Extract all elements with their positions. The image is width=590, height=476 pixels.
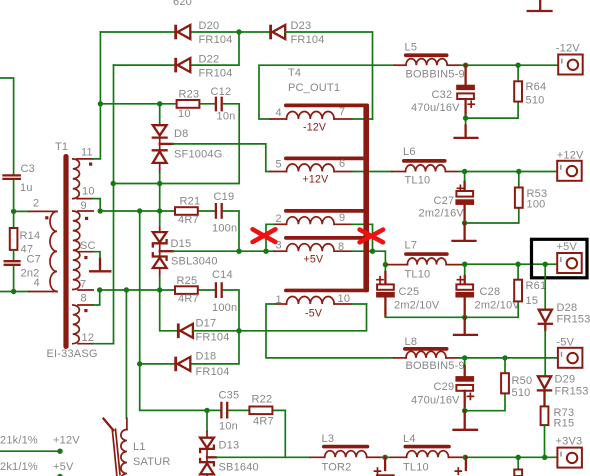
wire pin 10 jog down to pin 9 node	[93, 199, 100, 211]
wire pin7 row y=290	[100, 289, 175, 291]
capacitor C32 470u/16V	[411, 65, 475, 115]
node C19 riser on pin3 row	[236, 249, 241, 254]
node resistor stub	[516, 455, 521, 460]
connector -12V	[556, 43, 583, 75]
svg-text:L6: L6	[403, 146, 416, 158]
node C32 top	[463, 62, 468, 67]
wire to pin 3	[266, 250, 274, 252]
node C7/pin4	[11, 289, 16, 294]
resistor R73	[541, 406, 575, 457]
svg-text:C27: C27	[434, 195, 455, 207]
wire L6 to +12V connector	[459, 171, 566, 173]
svg-text:L1: L1	[133, 441, 146, 453]
svg-text:D28: D28	[557, 302, 578, 314]
svg-text:SATUR: SATUR	[133, 456, 170, 468]
node R50 top	[502, 355, 507, 360]
diode D23 FR104	[269, 20, 324, 46]
svg-text:+12V: +12V	[557, 150, 584, 162]
wire C25/C28/R61 bottom row	[385, 301, 518, 317]
svg-text:BOBBIN5-9: BOBBIN5-9	[406, 360, 465, 372]
node R61 top	[515, 262, 520, 267]
svg-text:4: 4	[34, 277, 40, 289]
svg-text:2m2/16V: 2m2/16V	[419, 208, 465, 220]
svg-text:9: 9	[339, 212, 345, 224]
ground below C27	[453, 223, 476, 241]
svg-text:C35: C35	[219, 390, 240, 402]
node R23/D8	[157, 101, 162, 106]
svg-text:C3: C3	[21, 163, 35, 175]
node D18 on riser	[137, 361, 142, 366]
svg-text:BOBBIN5-9: BOBBIN5-9	[406, 69, 465, 81]
node x=159.7 row211	[157, 208, 162, 213]
svg-text:SBL3040: SBL3040	[171, 256, 218, 268]
node x=139.7 row211	[137, 208, 142, 213]
black callout box +5V	[532, 239, 588, 277]
svg-text:+12V: +12V	[53, 435, 80, 447]
resistor R53	[515, 172, 547, 211]
T4 winding 3-8	[274, 236, 369, 266]
svg-text:L4: L4	[403, 433, 416, 445]
net stub +12V	[0, 450, 60, 452]
wire pin 10 to riser	[352, 303, 367, 305]
capacitor C14	[212, 269, 237, 314]
svg-text:470u/16V: 470u/16V	[411, 395, 460, 407]
node D20/D22/D23	[236, 29, 241, 34]
diode D29 FR153	[538, 374, 589, 407]
wire L8 to -5V connector	[459, 357, 566, 359]
svg-text:R50: R50	[512, 375, 533, 387]
node C35 row / D13	[204, 408, 209, 413]
node pin8/pin9	[370, 249, 375, 254]
svg-text:R25: R25	[177, 275, 198, 287]
svg-text:4R7: 4R7	[253, 416, 274, 428]
wire pin 11 up to D20 row	[93, 104, 100, 159]
svg-text:-5V: -5V	[305, 308, 323, 320]
svg-text:2k1/1%: 2k1/1%	[0, 461, 38, 473]
svg-text:12: 12	[82, 332, 95, 344]
svg-text:D17: D17	[196, 318, 217, 330]
resistor R64	[514, 65, 546, 106]
wire D20 row y=32	[100, 31, 239, 33]
capacitor C3	[4, 163, 35, 194]
node D22 riser / C12 return row	[111, 181, 116, 186]
svg-text:100n: 100n	[212, 302, 237, 314]
inductor L8 BOBBIN5-9	[394, 336, 465, 372]
svg-text:5: 5	[276, 159, 282, 171]
dual diode D15 SBL3040	[153, 228, 218, 331]
resistor R50	[501, 358, 532, 399]
wire C3 to node	[13, 181, 15, 212]
T1 winding 8-12	[73, 293, 94, 345]
svg-text:2: 2	[33, 198, 39, 210]
wire pin4 loop to L5 row	[259, 65, 394, 119]
svg-text:470u/16V: 470u/16V	[411, 102, 460, 114]
svg-text:4: 4	[276, 107, 282, 119]
dual diode D13 SB1640	[200, 410, 259, 476]
svg-text:10: 10	[178, 108, 191, 120]
wire riser x=139.7 down to D18/C35	[140, 211, 207, 410]
wire node to R14	[13, 211, 15, 228]
wire node to T1 pin 2	[14, 210, 29, 212]
svg-text:C12: C12	[211, 86, 232, 98]
node D8 riser on row 183.5	[157, 181, 162, 186]
node C3/R14/pin2	[11, 209, 16, 214]
node L7 left	[383, 262, 388, 267]
svg-text:R21: R21	[180, 196, 201, 208]
svg-text:-12V: -12V	[556, 43, 580, 55]
capacitor C35	[219, 390, 240, 433]
capacitor C28 2m2/10V	[455, 264, 520, 315]
svg-text:C28: C28	[480, 286, 501, 298]
T4 winding 5-6	[271, 157, 370, 186]
wire D22 riser x=113.5	[113, 65, 115, 344]
svg-text:FR104: FR104	[199, 68, 233, 80]
svg-text:T4: T4	[288, 67, 301, 79]
svg-text:510: 510	[526, 95, 545, 107]
node pin7/pin8	[97, 287, 102, 292]
wire D15 common to T4 pin 3 row	[160, 250, 173, 252]
svg-text:D20: D20	[199, 20, 220, 32]
svg-text:SF1004G: SF1004G	[174, 149, 222, 161]
svg-text:D15: D15	[171, 238, 192, 250]
diode D22 FR104	[174, 54, 232, 80]
svg-text:+5V: +5V	[557, 241, 578, 253]
svg-text:FR104: FR104	[291, 34, 325, 46]
svg-text:7: 7	[339, 106, 345, 118]
wire pin9 row y=211	[100, 210, 175, 212]
svg-text:2m2/10V: 2m2/10V	[394, 300, 440, 312]
svg-text:15: 15	[526, 295, 539, 307]
svg-text:4R7: 4R7	[178, 214, 199, 226]
svg-text:D13: D13	[219, 440, 240, 452]
T4 winding 1-10	[275, 289, 369, 320]
wire row y=183.5 to C12 riser	[113, 104, 239, 184]
svg-text:TL10: TL10	[403, 462, 429, 474]
svg-text:620: 620	[173, 0, 192, 8]
wire D17 to pin10 riser	[193, 304, 366, 331]
svg-text:SC: SC	[80, 240, 96, 252]
wire C35 row	[207, 410, 285, 457]
connector +5V	[557, 241, 582, 273]
resistor R25	[175, 275, 199, 305]
resistor stub below (cropped)	[514, 457, 522, 476]
ground top right	[528, 0, 552, 11]
diode D28 FR153	[539, 264, 590, 376]
inductor L3 TOR2	[310, 433, 380, 474]
resistor R14	[10, 228, 40, 256]
wire R25 row y=290	[175, 290, 239, 331]
ground below C29	[454, 411, 478, 430]
ground at SC	[90, 259, 110, 272]
T1 core	[63, 154, 68, 349]
ground below C32	[455, 118, 478, 138]
connector +12V	[557, 150, 584, 181]
wire L7 to +5V connector	[465, 263, 566, 265]
svg-text:11: 11	[81, 147, 93, 159]
node L1 riser row290	[124, 287, 129, 292]
svg-text:C25: C25	[399, 286, 420, 298]
wire bottom row to +3V3	[285, 456, 566, 458]
svg-text:10: 10	[338, 293, 351, 305]
resistor R61	[514, 264, 546, 307]
node L3/L4	[382, 455, 387, 460]
node C27 bottom	[462, 220, 467, 225]
dual diode D8 SF1004G	[153, 104, 223, 228]
resistor R21	[175, 196, 200, 227]
svg-text:PC_OUT1: PC_OUT1	[288, 82, 340, 94]
diode D18 FR104	[174, 351, 229, 379]
node R73 bottom	[542, 455, 547, 460]
svg-text:+12V: +12V	[303, 174, 330, 186]
svg-text:TL10: TL10	[405, 269, 431, 281]
ERC cross at pin 9/8	[360, 230, 383, 243]
svg-text:FR104: FR104	[196, 366, 230, 378]
node C28 bottom	[462, 315, 467, 320]
svg-text:R23: R23	[179, 89, 200, 101]
svg-text:FR104: FR104	[199, 34, 233, 46]
svg-text:TL10: TL10	[405, 175, 431, 187]
svg-text:R64: R64	[526, 81, 547, 93]
node R53 top	[516, 169, 521, 174]
svg-text:SB1640: SB1640	[219, 462, 259, 474]
node D15 riser row290	[157, 287, 162, 292]
ERC cross at pin 2/3	[253, 229, 276, 242]
capacitor C29 470u/16V	[411, 358, 474, 408]
wire D22 row y=65.1	[114, 32, 240, 65]
svg-text:C32: C32	[432, 89, 453, 101]
svg-text:-5V: -5V	[556, 337, 574, 349]
svg-text:T1: T1	[55, 141, 68, 153]
cap stub below node (cropped)	[455, 457, 466, 474]
wire top-left to C3	[0, 78, 14, 174]
resistor R23	[177, 89, 200, 121]
svg-text:L8: L8	[405, 336, 418, 348]
svg-text:510: 510	[512, 387, 531, 399]
wire D13 mid to bottom row	[207, 456, 216, 458]
svg-text:L5: L5	[405, 42, 418, 54]
svg-text:D23: D23	[291, 20, 312, 32]
svg-text:FR104: FR104	[196, 332, 230, 344]
wire pin 7 to riser	[352, 118, 373, 120]
svg-text:+5V: +5V	[304, 254, 324, 266]
wire D23 to pin7 riser	[285, 32, 372, 119]
wire pin 8 jog up to pin 7 node	[93, 290, 100, 305]
node C27 top	[462, 169, 467, 174]
node R23 row / pin11 riser	[98, 101, 103, 106]
wire pin 6 to L6	[352, 171, 392, 173]
connector -5V	[556, 337, 582, 368]
diode D20 FR104	[174, 20, 232, 46]
wire R21 row to C19	[175, 211, 239, 251]
svg-text:L3: L3	[322, 433, 335, 445]
inductor L5 BOBBIN5-9	[394, 42, 464, 81]
diode D17 FR104	[177, 318, 230, 344]
svg-text:D22: D22	[199, 54, 220, 66]
wire L5 to -12V connector	[460, 64, 567, 66]
svg-text:7: 7	[80, 279, 86, 291]
inductor L6 TL10	[392, 146, 459, 187]
wire pin 2 down to pin3 node	[266, 224, 274, 251]
svg-text:L7: L7	[405, 240, 418, 252]
wire pin3 row to pin2 riser	[239, 250, 266, 252]
node pin9/pin10	[98, 208, 103, 213]
wire D8 common cathode to T4 pin 5	[160, 143, 173, 145]
T4 winding 2-9	[274, 209, 369, 225]
T4 winding 4-7	[271, 104, 370, 134]
svg-text:21k/1%: 21k/1%	[0, 435, 38, 447]
inductor L7 TL10	[385, 240, 464, 281]
cap stub below node (cropped)	[375, 457, 395, 476]
svg-text:1: 1	[276, 294, 282, 306]
inductor L1 SATUR	[104, 418, 171, 476]
svg-text:+3V3: +3V3	[556, 436, 583, 448]
svg-text:R22: R22	[252, 394, 273, 406]
svg-text:R15: R15	[554, 418, 575, 430]
svg-text:C19: C19	[214, 191, 235, 203]
svg-text:-12V: -12V	[303, 122, 327, 134]
node C29 top	[462, 355, 467, 360]
wire pin 9 to riser	[352, 224, 373, 251]
SC tap wire	[78, 251, 94, 253]
capacitor C7	[5, 254, 41, 280]
svg-text:TOR2: TOR2	[322, 462, 352, 474]
T1 winding 11-10	[73, 147, 95, 199]
wire C32 bottom row	[466, 102, 518, 119]
wire left edge to T1 pin 4	[0, 291, 29, 293]
wire node to D23	[239, 31, 270, 33]
node D17/D18/C14	[236, 328, 241, 333]
svg-text:+5V: +5V	[53, 461, 74, 473]
node R64 top	[515, 62, 520, 67]
svg-text:100: 100	[527, 199, 546, 211]
node pin2 riser	[263, 249, 268, 254]
svg-text:8: 8	[338, 241, 344, 253]
wire C29 bottom row to R50	[465, 393, 505, 410]
wire C27 bottom row to R53	[465, 208, 519, 223]
wire pin 8 to L7 node	[352, 251, 386, 264]
svg-text:D8: D8	[174, 128, 188, 140]
inductor L4 TL10	[391, 433, 461, 474]
capacitor C19	[212, 191, 237, 235]
svg-text:100n: 100n	[212, 223, 237, 235]
T1 winding 9-SC-7	[73, 200, 96, 291]
T4 core	[363, 104, 369, 293]
capacitor C25 2m2/10V	[376, 265, 440, 316]
svg-text:D29: D29	[555, 374, 576, 386]
svg-text:2: 2	[276, 213, 282, 225]
capacitor C12	[211, 86, 236, 123]
wire R14 to C7	[13, 250, 15, 260]
wire pin 12 to riser	[93, 343, 113, 345]
wire pin11 riser to D20 corner	[99, 32, 101, 104]
svg-text:FR153: FR153	[555, 386, 589, 398]
wire C7 to node	[13, 266, 15, 292]
svg-text:EI-33ASG: EI-33ASG	[47, 348, 98, 360]
svg-text:D18: D18	[196, 351, 217, 363]
T1 winding 2-4 (primary left)	[29, 198, 57, 292]
svg-text:1u: 1u	[20, 182, 33, 194]
node D28 top	[543, 262, 548, 267]
svg-text:10n: 10n	[219, 421, 238, 433]
svg-text:10: 10	[82, 186, 95, 198]
wire L1 riser	[125, 290, 127, 418]
svg-text:6: 6	[339, 158, 345, 170]
node C29 bottom	[462, 408, 467, 413]
svg-text:R14: R14	[20, 230, 41, 242]
wire R23 row y=103.8	[100, 103, 239, 105]
node C32/ground	[463, 115, 468, 120]
svg-text:R61: R61	[526, 280, 547, 292]
wire D18 row y=363.9	[140, 331, 239, 364]
svg-text:4R7: 4R7	[178, 293, 199, 305]
svg-text:FR153: FR153	[557, 314, 590, 326]
svg-text:8: 8	[81, 293, 87, 305]
svg-text:10n: 10n	[217, 111, 236, 123]
resistor R22	[249, 394, 273, 428]
ground below C25/C28	[454, 317, 477, 335]
svg-text:C7: C7	[27, 254, 41, 266]
connector +3V3	[556, 436, 583, 468]
svg-text:C29: C29	[434, 381, 455, 393]
svg-text:C14: C14	[212, 269, 233, 281]
capacitor C27 2m2/16V	[419, 172, 475, 223]
node C28 top	[462, 262, 467, 267]
wire pin 1 to L8 row	[266, 304, 394, 358]
node L4 right / cap	[463, 455, 468, 460]
